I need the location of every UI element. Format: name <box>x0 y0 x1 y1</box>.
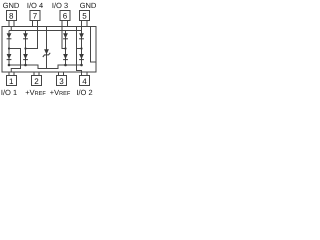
text d5 <box>83 13 87 19</box>
pin 8 lead <box>9 21 14 27</box>
pin 8 box <box>7 11 17 21</box>
package outline <box>2 27 96 73</box>
VREF bus <box>9 65 82 69</box>
junction dot chain3 bus <box>64 64 67 67</box>
pin 4 box <box>80 76 90 86</box>
wire pin6 to node3 <box>62 27 66 49</box>
diode D3b <box>63 54 68 59</box>
junction dot chain1 bus <box>8 64 11 67</box>
diode D1b <box>7 54 12 59</box>
text IO2 <box>77 90 92 96</box>
pin 4 lead <box>82 72 88 76</box>
pin 2 box <box>32 76 42 86</box>
pin 7 lead <box>33 21 38 27</box>
pin 3 lead <box>59 72 64 76</box>
diode D3a <box>63 33 68 38</box>
text GND-8 <box>3 3 19 8</box>
pin 6 box <box>60 11 70 21</box>
wire chain1 vertical <box>8 31 10 66</box>
wire node4 branch to pin 4 <box>77 27 82 73</box>
text VREF3 <box>50 90 70 95</box>
junction dot node3 <box>64 47 66 49</box>
pin 2 lead <box>34 72 39 76</box>
pin 1 box <box>7 76 17 86</box>
pin 1 lead <box>9 72 14 76</box>
pin 5 lead <box>82 21 88 27</box>
pin 7 box <box>30 11 40 21</box>
text d4 <box>82 79 86 85</box>
wire chain2 vertical <box>25 31 27 66</box>
diode D4a <box>79 33 84 38</box>
text d8 <box>9 13 13 19</box>
junction dot chain4 bus <box>80 64 83 67</box>
wire pin8 to GND rail <box>10 27 12 31</box>
wire zener stub to top edge <box>46 27 48 31</box>
wire pin7 to node2 <box>26 27 38 49</box>
text IO4 <box>28 3 43 9</box>
text VREF2 <box>26 90 46 95</box>
text d2 <box>35 78 39 84</box>
wire zener vertical <box>46 31 48 69</box>
zener bent bar <box>43 53 50 57</box>
pin 6 lead <box>62 21 68 27</box>
text d6 <box>63 13 67 19</box>
junction dot chain2 bus <box>24 64 27 67</box>
junction dot node4 <box>80 47 82 49</box>
wire node1 branch to pin 1 <box>9 49 21 73</box>
text GND-5 <box>80 3 96 8</box>
diode D2b <box>23 54 28 59</box>
zener TVS <box>44 49 49 54</box>
junction dot node1 <box>8 47 10 49</box>
wire chain3 vertical <box>65 31 67 66</box>
diode D2a <box>23 33 28 38</box>
junction dot node2 <box>24 47 26 49</box>
diode D1a <box>7 33 12 38</box>
text IO1 <box>2 90 17 96</box>
text d7 <box>33 13 37 19</box>
pin 5 box <box>80 11 90 21</box>
pin 3 box <box>57 76 67 86</box>
text IO3 <box>53 3 68 9</box>
text d3 <box>60 78 64 84</box>
text d1 <box>10 79 13 85</box>
GND rail <box>9 30 82 32</box>
wire right inner <box>91 27 97 63</box>
diode D4b <box>79 54 84 59</box>
wire chain4 vertical (pin 5 drop) <box>81 27 83 66</box>
